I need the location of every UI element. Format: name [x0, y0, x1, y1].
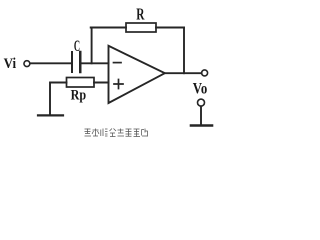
capacitor C	[71, 52, 73, 72]
node Vi input terminal	[24, 61, 30, 67]
resistor R	[126, 23, 156, 32]
svg-text:Rp: Rp	[71, 87, 87, 103]
wire Rp left to ground	[50, 83, 67, 115]
wire capacitor to op-amp inverting input	[82, 62, 109, 64]
op-amp U1	[109, 46, 165, 103]
wire feedback vertical right	[183, 28, 185, 74]
svg-text:Vo: Vo	[193, 81, 208, 98]
ground right	[191, 124, 212, 127]
svg-text:C: C	[74, 38, 80, 55]
pin minus sign	[114, 62, 122, 64]
svg-text:R: R	[136, 4, 145, 23]
wire Vi to capacitor	[30, 62, 71, 64]
node Vo output terminal	[202, 70, 208, 76]
wire op-amp output	[165, 72, 202, 74]
svg-text:Vi: Vi	[4, 56, 17, 72]
resistor Rp	[67, 78, 95, 88]
wire feedback top right segment	[156, 27, 184, 29]
wire feedback top left segment	[91, 27, 126, 29]
pin plus sign	[114, 80, 123, 89]
wire feedback vertical left	[91, 28, 93, 64]
ground left	[38, 114, 63, 116]
caption 基本微分运算电路 (drawn strokes, no CJK font available)	[85, 129, 148, 137]
node output reference terminal	[198, 99, 205, 106]
wire terminal to ground	[200, 106, 202, 124]
wire Rp to op-amp noninverting input	[94, 82, 109, 84]
